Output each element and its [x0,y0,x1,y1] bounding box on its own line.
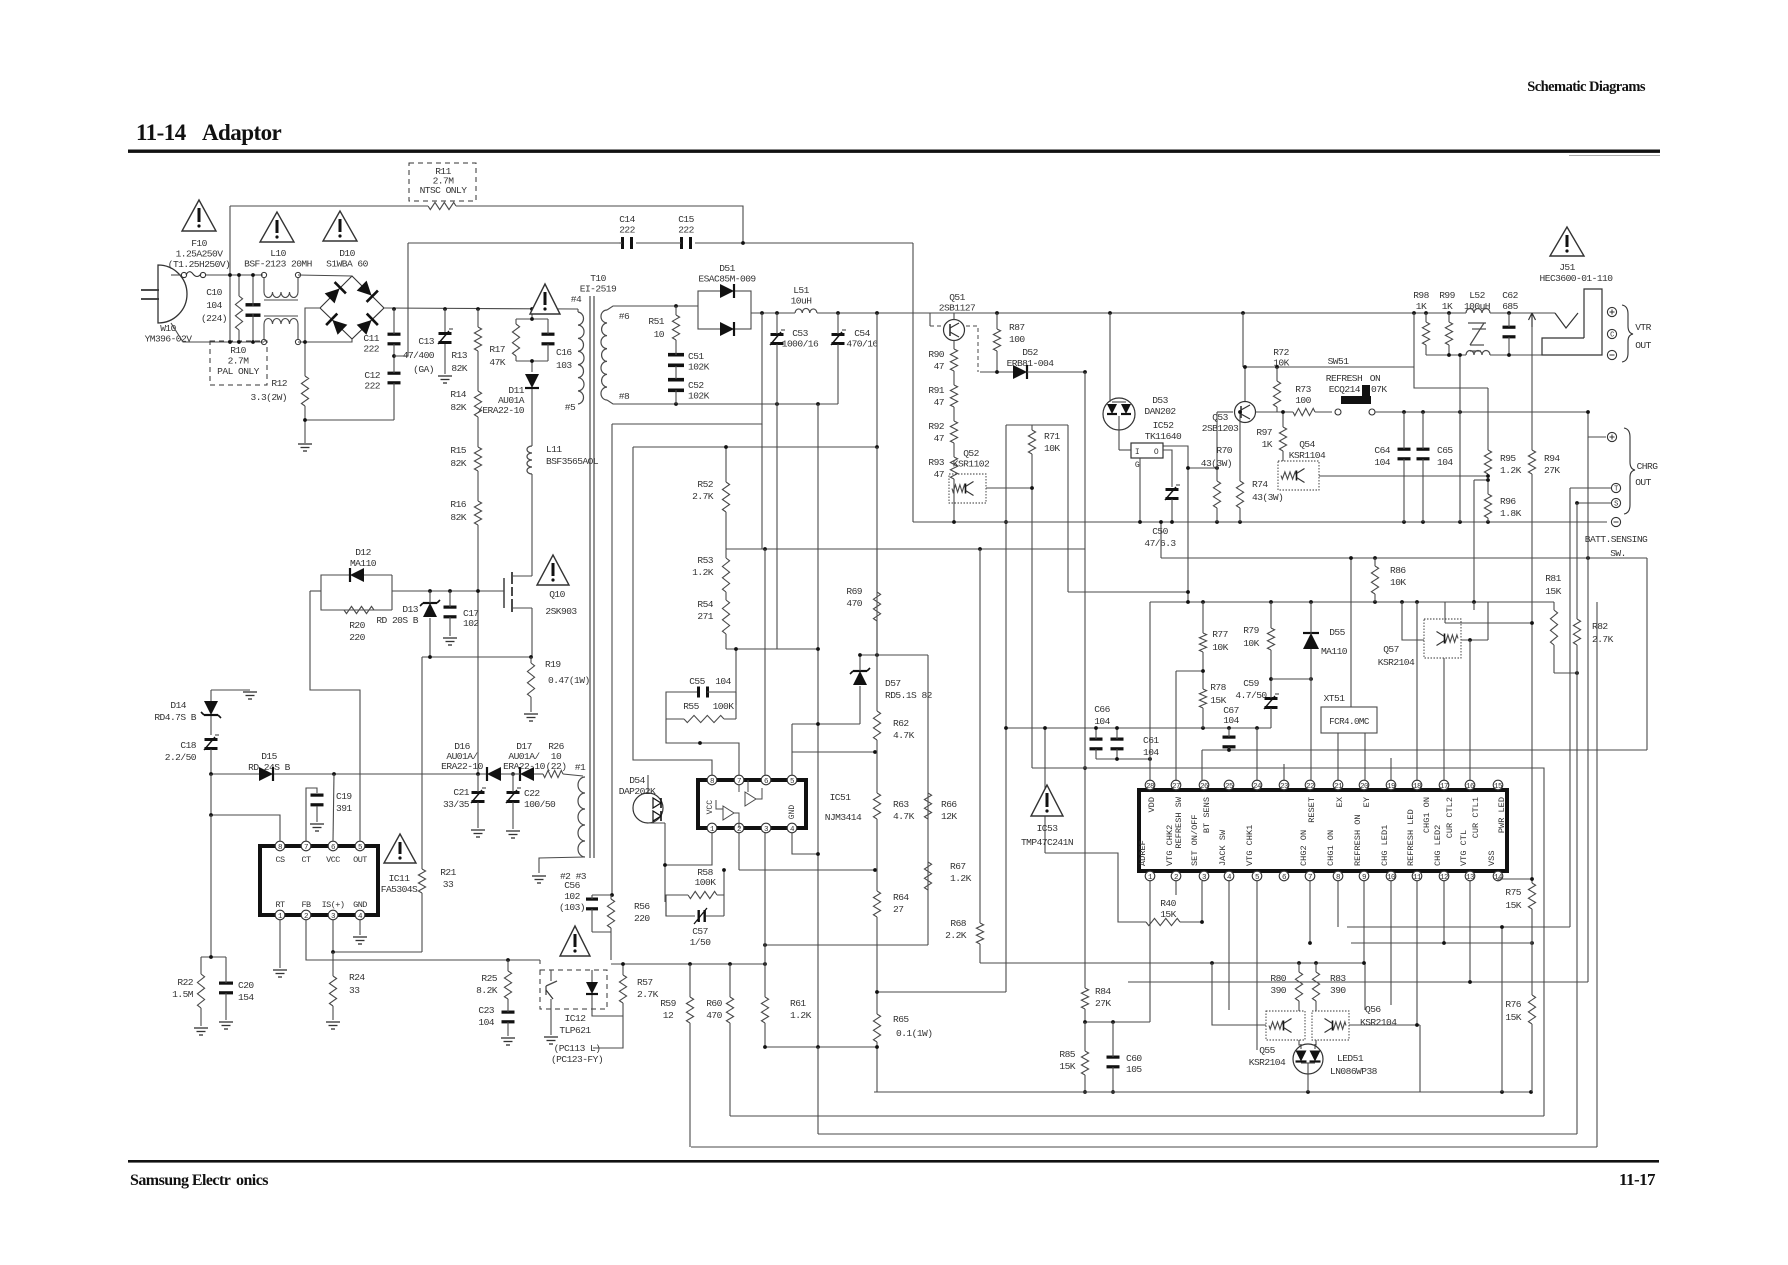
wire y853 to R40 [1045,853,1146,922]
svg-text:17: 17 [1440,783,1448,791]
svg-text:CHG LED2: CHG LED2 [1433,825,1443,866]
label F10 [168,238,231,270]
svg-text:100/50: 100/50 [524,799,556,810]
svg-text:OUT: OUT [353,855,367,865]
svg-text:RD4.7S B: RD4.7S B [154,712,196,723]
label C52 [688,380,710,402]
resistor R66 [924,793,931,819]
wire vertical to XT51 [1350,558,1352,707]
capacitor C13 polarized [438,309,453,374]
label R99 [1439,290,1455,312]
svg-text:D54: D54 [629,775,645,786]
c59 dot [1269,677,1313,681]
label C16 [556,347,572,371]
label D54 [619,775,656,797]
svg-text:222: 222 [619,225,635,236]
svg-text:27K: 27K [1544,465,1560,476]
label Q51 [939,292,975,314]
svg-text:R75: R75 [1505,887,1521,898]
svg-text:R20: R20 [349,620,365,631]
capacitor C21 polarized [471,774,486,828]
capacitor C62 [1503,313,1516,355]
wire pin23 riser [1283,764,1285,781]
wire x877 mid [876,447,878,655]
svg-text:222: 222 [364,381,380,392]
wire y655 [860,654,928,656]
svg-text:FCR4.0MC: FCR4.0MC [1329,716,1370,727]
resistor R17 [512,319,519,361]
svg-text:C12: C12 [364,370,380,381]
svg-text:LED51: LED51 [1337,1053,1364,1064]
svg-text:1K: 1K [1262,439,1273,450]
svg-text:C61: C61 [1143,735,1159,746]
label R24 [349,972,365,996]
label J51 part [1540,273,1614,284]
wire GND pin down [359,920,361,935]
fb dot [506,958,510,962]
svg-text:8.2K: 8.2K [476,985,498,996]
svg-text:D10: D10 [339,248,355,259]
svg-text:IC52: IC52 [1153,420,1175,431]
svg-text:390: 390 [1270,985,1286,996]
svg-text:IC12: IC12 [565,1013,587,1024]
label KSR2104 q57 [1378,657,1415,668]
ground below R19 [524,714,538,721]
label C15 [678,214,694,236]
capacitor C10 [246,275,261,342]
y724 dot [816,722,820,726]
svg-text:R81: R81 [1545,573,1561,584]
svg-text:82K: 82K [450,402,466,413]
svg-text:15K: 15K [1545,586,1561,597]
svg-text:VCC: VCC [326,855,340,865]
d52 dots [995,370,1087,374]
label Q56 [1365,1004,1381,1015]
resistor R13 [474,309,481,351]
diode D14 zener [201,690,221,735]
wire pin27 riser [1175,671,1177,781]
svg-text:15K: 15K [1059,1061,1075,1072]
capacitor C18 polarized [204,735,219,774]
resistor R59 [686,964,693,1147]
svg-text:15K: 15K [1505,1012,1521,1023]
wire to bridge bottom [298,339,352,342]
svg-text:G: G [1135,461,1140,470]
svg-text:20: 20 [1360,783,1369,791]
svg-text:IS(+): IS(+) [322,900,345,910]
wire C15 to right vertical [695,242,913,244]
IC53 pin 8 [1333,871,1343,882]
bus junction dots [392,307,534,311]
svg-text:18: 18 [1413,783,1421,791]
label R26 [546,741,567,772]
resistor R83 [1312,963,1319,1011]
ground C19 [310,824,324,831]
svg-text:33: 33 [443,879,454,890]
svg-text:2.7K: 2.7K [692,491,714,502]
svg-text:102K: 102K [688,362,710,373]
wire secondary top lead [607,306,698,310]
wire bus to jack [1490,312,1555,314]
svg-text:D57: D57 [885,678,901,689]
junction C11 C12 [303,354,396,422]
wire x1068 down [1067,425,1069,592]
capacitor C61 [1111,728,1124,750]
wire plug to fuse [171,274,181,276]
svg-text:100uH: 100uH [1464,301,1490,312]
resistor R72 [1273,367,1280,412]
wire y963 right drop [1364,963,1366,1010]
wire IC52 gnd pin [1139,458,1141,522]
wire R22 C20 feed [201,956,226,958]
svg-text:R94: R94 [1544,453,1560,464]
wire y870 [739,869,877,871]
svg-text:8: 8 [710,778,714,786]
svg-text:27: 27 [893,904,903,915]
svg-text:DAN202: DAN202 [1144,406,1176,417]
wire Q57 to pin17 [1443,658,1445,781]
svg-text:VTR: VTR [1635,322,1651,333]
label C65 [1437,445,1453,468]
svg-text:RD 24S B: RD 24S B [248,762,290,773]
svg-text:TK11640: TK11640 [1145,431,1182,442]
ground RT [273,970,287,977]
svg-text:VSS: VSS [1487,851,1497,866]
svg-text:1/50: 1/50 [690,937,712,948]
label R58 [695,867,717,888]
dashed base link Q51 [930,313,978,372]
svg-text:2.2K: 2.2K [945,930,967,941]
svg-text:VTG CHK1: VTG CHK1 [1245,825,1255,866]
label R76 [1505,999,1521,1023]
capacitor C53 polarized [770,313,785,404]
label C55 [689,676,705,687]
resistor R77 [1199,602,1206,671]
svg-text:47K: 47K [489,357,505,368]
wire R58 left stub [665,902,667,916]
svg-text:BSF3565AOL: BSF3565AOL [546,456,599,467]
resistor R67 [924,862,931,890]
svg-text:22: 22 [1306,783,1314,791]
label C18 [165,740,197,763]
header text Schematic Diagrams [1527,79,1646,95]
transistor Q57 digital [1424,619,1461,658]
wire447 dots [875,445,879,449]
svg-text:VCC: VCC [706,800,715,815]
svg-text:C55: C55 [689,676,705,687]
inductor L11 [527,446,532,572]
wire x762 lower [761,424,763,549]
label R79 [1243,625,1259,649]
junction R17C16 [530,317,534,363]
label NJM3414 [825,812,862,823]
svg-text:IC53: IC53 [1037,823,1059,834]
svg-text:KSR1102: KSR1102 [953,459,990,470]
wire snubber bottom [592,931,611,933]
svg-text:C50: C50 [1152,526,1168,537]
warning triangle IC11 [384,834,416,863]
svg-text:C22: C22 [524,788,540,799]
wire y1092 [874,1091,1531,1093]
capacitor C12 [388,356,401,420]
resistor R21 [418,869,425,952]
svg-text:HEC3600-01-110: HEC3600-01-110 [1540,273,1614,284]
svg-text:23: 23 [1280,783,1289,791]
svg-text:102: 102 [463,618,479,629]
resistor R15 [474,417,481,471]
label C14 [619,214,635,236]
svg-text:R73: R73 [1295,384,1311,395]
footer text Samsung Electronics [130,1172,268,1189]
IC51 pin 2 [734,823,744,834]
wire R81 bottom [1554,672,1577,674]
svg-text:CHRG: CHRG [1637,461,1659,472]
IC53 pin 12 [1439,871,1449,882]
label R71 [1044,431,1060,454]
svg-text:EI-2519: EI-2519 [580,284,617,295]
svg-text:L52: L52 [1469,290,1485,301]
wire x777 lower [776,404,778,649]
diode D16 [487,767,501,781]
label D52 [1022,347,1038,358]
wire x1588 [1587,437,1589,982]
wire x1502 [1501,927,1503,1092]
wire pin4 to x818 [792,833,818,854]
svg-text:D52: D52 [1022,347,1038,358]
svg-text:J51: J51 [1559,262,1575,273]
svg-text:R16: R16 [450,499,466,510]
svg-text:JACK SW: JACK SW [1218,829,1228,866]
svg-text:R91: R91 [928,385,944,396]
y592 dot [1186,590,1190,594]
y752 dot [873,750,877,754]
wire bus to R17C16 [531,309,533,319]
svg-text:C53: C53 [792,328,808,339]
svg-text:390: 390 [1330,985,1346,996]
svg-text:GND: GND [788,805,797,820]
svg-text:100: 100 [1295,395,1311,406]
svg-text:2: 2 [1174,874,1178,882]
footer page number 11-17 [1619,1170,1656,1189]
wire D52 node down [1084,372,1086,602]
svg-text:REFRESH ON: REFRESH ON [1353,814,1363,866]
ground R24 [326,1022,340,1029]
svg-text:Q56: Q56 [1365,1004,1381,1015]
label R51 [648,316,664,340]
IC51 pin 7 [734,775,744,786]
resistor R82 [1573,619,1580,1134]
svg-text:R52: R52 [697,479,713,490]
svg-text:C56: C56 [564,880,580,891]
diode D17 [501,767,543,781]
wire x211 down [210,774,212,815]
y367 dots [1243,365,1279,369]
wire plug bottom [171,323,264,342]
resistor R40 [1146,918,1180,925]
diode D13 zener [420,591,440,657]
IC51 VCC text [706,800,715,815]
svg-text:C11: C11 [363,333,379,344]
brace VTR [1622,305,1633,362]
r74 top [1238,410,1242,414]
transformer T10 secondary winding [601,310,607,400]
wire x1420 [1419,1025,1421,1092]
label XT51 [1324,693,1346,704]
wire fuse to L10 [206,274,263,276]
svg-text:MA110: MA110 [1321,646,1348,657]
resistor R81 [1550,602,1557,673]
label BATT SENSING [1585,534,1648,545]
wire IS to R24 [332,952,334,976]
label IC52 [1145,420,1182,442]
wire y1022 [1085,1021,1150,1023]
label C62 [1502,290,1518,312]
label ECQ214 [1329,384,1361,395]
svg-text:ERA22-10: ERA22-10 [441,761,483,772]
wire y623 [1445,622,1532,624]
capacitor C64 [1398,412,1411,522]
svg-text:21: 21 [1334,783,1343,791]
ground C23 [501,1038,515,1045]
svg-text:2SB1203: 2SB1203 [1202,423,1239,434]
svg-text:Q52: Q52 [963,448,979,459]
label T10 [580,273,617,295]
svg-text:CUR CTL2: CUR CTL2 [1445,797,1455,838]
resistor R61 [761,997,768,1023]
svg-text:XT51: XT51 [1324,693,1346,704]
svg-text:2SK903: 2SK903 [545,606,577,617]
svg-text:11-14: 11-14 [136,120,187,145]
dashed box NTSC ONLY [409,163,476,201]
resistor R11 [428,202,456,209]
wire C12 bottom to R12 [305,419,394,421]
wire pin13 riser [1469,881,1471,982]
wire RT pin down [279,920,281,968]
label R68 [945,918,967,941]
wire D11 to L11 [531,389,533,446]
label C21 [443,787,470,810]
IC IC11 body [260,846,378,915]
wire y963 [980,962,1365,964]
wire pin10 riser [1390,881,1392,1005]
pin9 dot [1362,961,1366,965]
svg-text:ADREF: ADREF [1138,840,1148,866]
resistor R85 [1081,1022,1088,1092]
svg-text:R65: R65 [893,1014,909,1025]
svg-text:R12: R12 [271,378,287,389]
wire x877 upper [876,313,878,447]
label C19 [336,791,352,814]
label CHRG [1637,461,1659,472]
resistor R53 [722,549,729,592]
label R84 [1095,986,1111,1009]
svg-text:PAL ONLY: PAL ONLY [217,366,259,377]
svg-text:SW51: SW51 [1328,356,1350,367]
y750 dots [1227,748,1231,752]
snubber dot [610,893,614,897]
wire opto emitter to gnd [550,1009,552,1035]
label R56 [634,901,650,924]
label D13 [376,604,418,626]
svg-text:82K: 82K [450,458,466,469]
svg-text:10K: 10K [1243,638,1259,649]
IC IC53 body [1139,790,1507,871]
svg-text:D55: D55 [1329,627,1345,638]
resistor R76 [1528,943,1535,1092]
svg-text:R56: R56 [634,901,650,912]
svg-text:C10: C10 [206,287,222,298]
svg-text:OUT: OUT [1635,477,1651,488]
wire long vertical to ground bus [912,243,914,522]
label R94 [1544,453,1560,476]
label LN086WP38 [1330,1066,1378,1077]
label IC12 alt [551,1043,603,1065]
IC53 pin 15 [1493,780,1503,791]
wire y1147 [691,1146,1597,1148]
svg-text:12: 12 [1440,874,1448,882]
wire D14 top [211,689,250,691]
r22 dot [209,955,213,959]
label R15 [450,445,466,469]
svg-text:CHG1 ON: CHG1 ON [1326,830,1336,866]
ground aux winding [532,876,546,883]
label SW51 [1328,356,1350,367]
label R63 [893,799,915,822]
cs dot [209,813,213,817]
wire snubber top [592,894,611,896]
svg-text:C59: C59 [1243,678,1259,689]
svg-text:Adaptor: Adaptor [202,120,282,145]
svg-text:R40: R40 [1160,898,1176,909]
resistor R75 [1528,876,1535,943]
y1022 dots [1083,1020,1115,1024]
resistor R63 [873,752,880,870]
wire snubber to fb line [610,932,612,960]
label T10 pin4 [571,294,582,305]
svg-text:C64: C64 [1374,445,1390,456]
warning triangle D10 [323,211,357,241]
wire R71 top [1006,424,1068,426]
label IC53 [1037,823,1059,834]
bridge rectifier D10 [320,276,384,339]
label D14 part [154,712,196,723]
label C61 [1143,735,1159,758]
IC53 pin 27 [1171,780,1181,791]
r85 c60 bottom dots [1083,1090,1115,1094]
IC53 pin 17 [1439,780,1449,791]
transistor Q10 MOSFET [504,572,532,657]
label T10 pin23 [560,871,587,882]
y1047 dots [763,1045,879,1049]
IC53 pin 9 [1359,871,1369,882]
svg-text:R96: R96 [1500,496,1516,507]
svg-text:222: 222 [678,225,694,236]
IC53 pin 18 [1412,780,1422,791]
IC53 pin 5 [1252,871,1262,882]
svg-text:25: 25 [1225,783,1234,791]
y927 dots [1500,925,1534,945]
svg-text:D53: D53 [1152,395,1168,406]
y727 dots [1255,726,1259,730]
IC53 pin 4 [1224,871,1234,882]
label R40 [1160,898,1176,920]
wire to IC51 pin8 [633,447,712,775]
svg-text:8: 8 [1336,874,1340,882]
IC53 pin 20 [1359,780,1369,791]
label R19 value [548,675,590,686]
label 2SK903 [545,606,577,617]
svg-text:1.5M: 1.5M [172,989,194,1000]
